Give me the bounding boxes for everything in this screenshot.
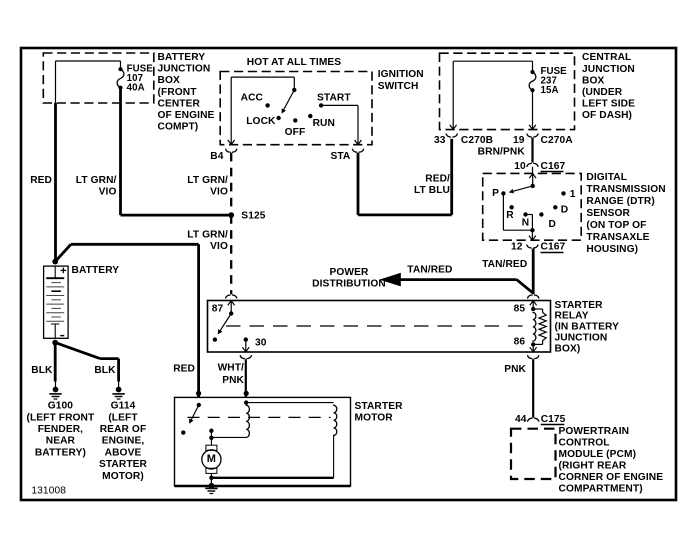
relay coil (inductor) bbox=[533, 312, 536, 341]
svg-text:LT GRN/: LT GRN/ bbox=[76, 175, 117, 186]
svg-text:BATTERY: BATTERY bbox=[72, 265, 120, 276]
svg-text:(LEFT: (LEFT bbox=[108, 412, 138, 423]
connector at relay 30 bbox=[240, 356, 251, 359]
svg-text:LT GRN/: LT GRN/ bbox=[187, 229, 228, 240]
svg-text:TAN/RED: TAN/RED bbox=[482, 259, 527, 270]
svg-text:TRANSAXLE: TRANSAXLE bbox=[586, 232, 649, 243]
DTR sensor name label bbox=[586, 172, 665, 255]
svg-text:LOCK: LOCK bbox=[246, 116, 276, 127]
svg-text:VIO: VIO bbox=[99, 186, 117, 197]
svg-text:ENGINE,: ENGINE, bbox=[102, 436, 145, 447]
label RED bbox=[30, 175, 52, 186]
starter solenoid blade bbox=[189, 405, 199, 424]
battery junction box (dashed enclosure) bbox=[43, 53, 154, 103]
wire RED/LT BLU - STA to connector 33 bbox=[358, 139, 452, 215]
svg-text:RED: RED bbox=[173, 364, 195, 375]
svg-text:(FRONT: (FRONT bbox=[158, 87, 198, 98]
connector STA symbol bbox=[352, 149, 363, 152]
connector 19 C270A symbol bbox=[527, 134, 538, 137]
contact dot RUN bbox=[308, 114, 312, 118]
svg-text:MODULE (PCM): MODULE (PCM) bbox=[559, 449, 637, 460]
svg-text:C167: C167 bbox=[541, 161, 566, 172]
svg-text:RANGE (DTR): RANGE (DTR) bbox=[586, 196, 654, 207]
PCM name label bbox=[559, 426, 664, 495]
label RED (starter feed) bbox=[173, 364, 195, 375]
contact dot 1 bbox=[561, 191, 565, 195]
pin label 33 bbox=[434, 135, 446, 146]
connector 12 C167 symbol bbox=[527, 245, 538, 248]
wire RED - battery positive to starter motor bbox=[55, 244, 198, 397]
svg-text:RED: RED bbox=[30, 175, 52, 186]
svg-text:10: 10 bbox=[514, 161, 526, 172]
relay fixed contact bbox=[213, 337, 217, 341]
svg-text:TAN/RED: TAN/RED bbox=[407, 264, 452, 275]
svg-text:(LEFT FRONT: (LEFT FRONT bbox=[26, 412, 95, 423]
wire LT GRN/VIO - fuse 107 to splice S125 bbox=[121, 89, 232, 216]
solenoid feed junction (RED) bbox=[196, 391, 201, 396]
pin label 30 bbox=[255, 337, 267, 348]
svg-text:M: M bbox=[207, 453, 216, 465]
pin label 86 bbox=[514, 337, 526, 348]
solenoid coil feed junction (WHT/PNK) bbox=[244, 391, 249, 396]
svg-text:C175: C175 bbox=[541, 414, 566, 425]
pin label 10 bbox=[514, 161, 526, 172]
terminal 33 exit arrow bbox=[450, 125, 457, 130]
battery symbol bbox=[44, 266, 69, 338]
wire BLK - battery negative to G100 bbox=[54, 343, 57, 387]
connector 10 C167 symbol bbox=[527, 163, 538, 166]
relay internal dashed divider bbox=[226, 325, 525, 327]
svg-text:STARTER: STARTER bbox=[99, 459, 148, 470]
mechanical linkage (dashed) bbox=[188, 416, 331, 418]
svg-text:SWITCH: SWITCH bbox=[378, 81, 419, 92]
svg-text:R: R bbox=[506, 210, 514, 221]
label D (upper) bbox=[561, 204, 568, 215]
label LT GRN/VIO (B4 branch) bbox=[187, 175, 228, 197]
starter solenoid contact pivot bbox=[197, 403, 201, 407]
svg-text:44: 44 bbox=[515, 414, 527, 425]
svg-text:40A: 40A bbox=[127, 83, 145, 94]
svg-text:STARTER: STARTER bbox=[355, 401, 404, 412]
svg-text:DIGITAL: DIGITAL bbox=[586, 172, 627, 183]
svg-text:FENDER,: FENDER, bbox=[38, 424, 83, 435]
svg-text:B4: B4 bbox=[210, 151, 223, 162]
ignition switch pivot contact bbox=[292, 88, 296, 92]
label START bbox=[317, 93, 351, 104]
svg-text:BLK: BLK bbox=[94, 365, 116, 376]
label D (lower) bbox=[549, 219, 556, 230]
wire - solenoid node to pull-in coil bbox=[246, 402, 333, 404]
svg-text:BOX: BOX bbox=[582, 75, 604, 86]
starter motor M bbox=[202, 445, 221, 473]
wire - motor to ground rail bbox=[210, 473, 212, 485]
svg-text:START: START bbox=[317, 93, 351, 104]
svg-text:VIO: VIO bbox=[210, 186, 228, 197]
contact dot START bbox=[319, 103, 323, 107]
contact dot LOCK bbox=[276, 116, 280, 120]
svg-text:TRANSMISSION: TRANSMISSION bbox=[586, 184, 665, 195]
label STA bbox=[330, 151, 350, 162]
svg-text:COMPARTMENT): COMPARTMENT) bbox=[559, 483, 643, 494]
wire - fuse 237 to terminal 19 bbox=[532, 90, 534, 129]
starter solenoid fixed contact bbox=[181, 430, 185, 434]
wire BLK - battery negative to G114 bbox=[55, 343, 118, 387]
ground G100 bbox=[49, 387, 61, 399]
motor node lower bbox=[209, 436, 213, 440]
connector name C167 (top) bbox=[541, 161, 566, 172]
svg-text:P: P bbox=[492, 188, 499, 199]
connector at relay 85 bbox=[528, 295, 539, 298]
svg-text:N: N bbox=[522, 218, 529, 229]
svg-text:JUNCTION: JUNCTION bbox=[158, 64, 211, 75]
terminal B4 exit arrow bbox=[228, 140, 235, 145]
svg-text:NEAR: NEAR bbox=[46, 436, 76, 447]
svg-text:BATTERY: BATTERY bbox=[158, 52, 206, 63]
svg-text:C270B: C270B bbox=[461, 135, 493, 146]
figure number 131008 bbox=[31, 485, 66, 496]
label HOT AT ALL TIMES bbox=[247, 57, 342, 68]
connector name C270A bbox=[541, 135, 574, 146]
svg-text:19: 19 bbox=[513, 135, 525, 146]
ignition switch box (dashed enclosure) bbox=[220, 72, 372, 145]
contact dot P bbox=[501, 191, 505, 195]
svg-text:1: 1 bbox=[570, 189, 576, 200]
wire BRN/PNK - connector 19 to C167 pin 10 bbox=[531, 138, 533, 163]
svg-text:HOUSING): HOUSING) bbox=[586, 244, 638, 255]
svg-text:131008: 131008 bbox=[31, 485, 66, 496]
svg-text:STARTER: STARTER bbox=[555, 300, 604, 311]
wire LT GRN/VIO (dashed) - S125 to starter relay 87 bbox=[230, 215, 232, 294]
connector 44 C175 symbol bbox=[528, 418, 539, 421]
svg-text:C270A: C270A bbox=[541, 135, 574, 146]
label LT GRN/VIO (relay branch) bbox=[187, 229, 228, 251]
svg-text:OFF: OFF bbox=[285, 127, 306, 138]
pin label 87 bbox=[212, 303, 224, 314]
pin label 44 bbox=[515, 414, 527, 425]
relay 87 contact bbox=[229, 311, 233, 315]
svg-text:CONTROL: CONTROL bbox=[559, 437, 610, 448]
connector name C175 bbox=[541, 414, 566, 425]
connector name C270B bbox=[461, 135, 493, 146]
svg-text:BOX: BOX bbox=[158, 75, 180, 86]
wire - nodes to motor bbox=[210, 429, 212, 446]
svg-text:IGNITION: IGNITION bbox=[378, 69, 424, 80]
contact dot ACC bbox=[265, 103, 269, 107]
wire TAN/RED - C167 pin 12 to starter relay 85 bbox=[532, 249, 535, 295]
label WHT/PNK bbox=[218, 363, 245, 386]
svg-text:SENSOR: SENSOR bbox=[586, 208, 630, 219]
contact dot N bbox=[523, 212, 527, 216]
ground G100 label bbox=[26, 401, 95, 459]
connector at relay 86 bbox=[528, 356, 539, 359]
battery positive junction node bbox=[52, 259, 58, 265]
connector B4 symbol bbox=[226, 149, 237, 152]
terminal STA exit arrow bbox=[355, 140, 362, 145]
relay movable contact blade bbox=[218, 314, 232, 335]
solenoid node bbox=[244, 400, 248, 404]
svg-text:(IN BATTERY: (IN BATTERY bbox=[555, 322, 620, 333]
starter motor ground bbox=[205, 483, 217, 494]
svg-text:CORNER OF ENGINE: CORNER OF ENGINE bbox=[559, 472, 664, 483]
digital transmission range sensor box (dashed enclosure) bbox=[483, 173, 582, 240]
svg-text:BLK: BLK bbox=[31, 365, 53, 376]
wire - P contact to pin 12 rail bbox=[503, 193, 532, 230]
connector 33 C270B symbol bbox=[446, 134, 457, 137]
svg-text:D: D bbox=[561, 204, 568, 215]
battery negative junction node bbox=[52, 340, 58, 346]
svg-text:15A: 15A bbox=[541, 85, 559, 96]
starter motor box bbox=[175, 397, 351, 486]
wire - C167 pin 10 to DTR sensor bbox=[532, 167, 534, 174]
label B4 bbox=[210, 151, 223, 162]
svg-text:PNK: PNK bbox=[504, 364, 526, 375]
svg-text:WHT/: WHT/ bbox=[218, 363, 244, 374]
svg-text:86: 86 bbox=[514, 337, 526, 348]
pin label 12 bbox=[511, 242, 523, 253]
wire - START contact to STA terminal bbox=[321, 105, 358, 144]
power distribution feed arrow bbox=[379, 273, 533, 293]
DTR pivot contact bbox=[531, 184, 535, 188]
relay 30 contact bbox=[244, 337, 248, 341]
starter motor name label bbox=[355, 401, 404, 423]
starter relay box bbox=[208, 301, 551, 353]
battery junction box label bbox=[158, 52, 215, 133]
label OFF bbox=[285, 127, 306, 138]
svg-text:COMPT): COMPT) bbox=[158, 122, 199, 133]
svg-text:RED/: RED/ bbox=[425, 174, 450, 185]
label BLK (G100) bbox=[31, 365, 53, 376]
svg-text:LT BLU: LT BLU bbox=[414, 185, 450, 196]
label RED/LT BLU bbox=[414, 174, 450, 196]
svg-text:LT GRN/: LT GRN/ bbox=[187, 175, 228, 186]
svg-text:VIO: VIO bbox=[210, 241, 228, 252]
DTR entry arrow (pin 10) bbox=[529, 174, 536, 186]
svg-text:(UNDER: (UNDER bbox=[582, 87, 623, 98]
label PNK bbox=[504, 364, 526, 375]
ignition switch movable blade bbox=[282, 90, 295, 114]
terminal 19 exit arrow bbox=[529, 125, 536, 130]
contact dot D (upper) bbox=[553, 205, 557, 209]
svg-text:G114: G114 bbox=[111, 401, 136, 412]
svg-text:D: D bbox=[549, 219, 556, 230]
ground G114 label bbox=[99, 401, 148, 482]
svg-text:33: 33 bbox=[434, 135, 446, 146]
relay 85 terminal bbox=[531, 307, 535, 311]
fuse 237 value label bbox=[541, 66, 568, 96]
label BLK (G114) bbox=[94, 365, 116, 376]
svg-text:ACC: ACC bbox=[241, 93, 264, 104]
ignition switch name label bbox=[378, 69, 424, 92]
svg-text:12: 12 bbox=[511, 242, 523, 253]
svg-text:JUNCTION: JUNCTION bbox=[555, 333, 608, 344]
label POWER DISTRIBUTION bbox=[312, 267, 386, 290]
label TAN/RED (arrow) bbox=[407, 264, 452, 275]
label RUN bbox=[313, 118, 335, 129]
svg-text:BOX): BOX) bbox=[555, 343, 581, 354]
svg-text:30: 30 bbox=[255, 337, 267, 348]
wire - ignition switch B4 riser bbox=[231, 77, 294, 144]
starter relay name label bbox=[555, 300, 620, 355]
svg-text:MOTOR: MOTOR bbox=[355, 412, 394, 423]
pin label 85 bbox=[514, 303, 526, 314]
label S125 bbox=[241, 211, 265, 222]
svg-text:(RIGHT REAR: (RIGHT REAR bbox=[559, 460, 627, 471]
wire - N contact to pin 12 rail bbox=[526, 215, 533, 231]
wire - CJB internal bus bbox=[453, 61, 532, 129]
svg-text:S125: S125 bbox=[241, 211, 265, 222]
svg-text:ABOVE: ABOVE bbox=[105, 447, 142, 458]
label BATTERY bbox=[72, 265, 120, 276]
splice S125 bbox=[228, 212, 234, 218]
svg-text:C167: C167 bbox=[541, 242, 566, 253]
label 1 bbox=[570, 189, 576, 200]
fuse 237 (15A) bbox=[529, 70, 536, 92]
label BRN/PNK bbox=[478, 147, 526, 158]
fuse 107 value label bbox=[127, 64, 154, 94]
central junction box label bbox=[582, 52, 635, 121]
wire LT GRN/VIO (dashed) - B4 to S125 bbox=[230, 153, 232, 215]
svg-text:BATTERY): BATTERY) bbox=[35, 447, 86, 458]
svg-text:CENTER: CENTER bbox=[158, 98, 201, 109]
connector name C167 (bottom) bbox=[541, 242, 566, 253]
pin label 19 bbox=[513, 135, 525, 146]
relay 86 terminal bbox=[531, 342, 535, 346]
relay 85 entry arrow bbox=[530, 301, 537, 309]
motor node upper bbox=[209, 429, 213, 433]
svg-text:85: 85 bbox=[514, 303, 526, 314]
svg-text:BRN/PNK: BRN/PNK bbox=[478, 147, 526, 158]
relay 30 exit arrow bbox=[242, 340, 249, 352]
motor ground rail node bbox=[209, 476, 213, 480]
svg-text:(ON TOP OF: (ON TOP OF bbox=[586, 220, 646, 231]
fuse 107 (40A) bbox=[117, 67, 124, 90]
relay coil resistor bbox=[533, 309, 546, 344]
DTR pin 12 junction bbox=[530, 228, 534, 232]
wire PNK - relay 86 to PCM bbox=[532, 359, 534, 417]
central junction box (dashed enclosure) bbox=[440, 53, 575, 129]
svg-text:POWERTRAIN: POWERTRAIN bbox=[559, 426, 630, 437]
wire - hold-in coil to motor bbox=[211, 436, 246, 438]
svg-text:OF DASH): OF DASH) bbox=[582, 110, 632, 121]
ground G114 bbox=[112, 387, 124, 399]
solenoid hold-in coil bbox=[246, 405, 249, 437]
DTR exit arrow (pin 12) bbox=[529, 230, 536, 240]
label N bbox=[522, 218, 529, 229]
svg-text:87: 87 bbox=[212, 303, 224, 314]
contact dot D (lower) bbox=[539, 212, 543, 216]
wire WHT/PNK - relay 30 to starter solenoid bbox=[245, 359, 247, 397]
svg-text:G100: G100 bbox=[48, 401, 74, 412]
label LT GRN/VIO (fuse branch) bbox=[76, 175, 117, 197]
wire - BJB internal bus (battery feed to fuse 107) bbox=[56, 61, 121, 103]
wire - pull-in coil return to ground rail bbox=[211, 435, 333, 477]
contact dot OFF bbox=[293, 118, 297, 122]
powertrain control module box (dashed enclosure) bbox=[511, 429, 556, 479]
svg-text:DISTRIBUTION: DISTRIBUTION bbox=[312, 279, 386, 290]
svg-text:POWER: POWER bbox=[330, 267, 370, 278]
label P bbox=[492, 188, 499, 199]
label ACC bbox=[241, 93, 264, 104]
svg-text:HOT AT ALL TIMES: HOT AT ALL TIMES bbox=[247, 57, 342, 68]
contact dot R bbox=[509, 205, 513, 209]
DTR selector blade bbox=[509, 186, 533, 194]
svg-text:LEFT SIDE: LEFT SIDE bbox=[582, 99, 635, 110]
svg-text:REAR OF: REAR OF bbox=[100, 424, 147, 435]
svg-text:RELAY: RELAY bbox=[555, 311, 589, 322]
label LOCK bbox=[246, 116, 276, 127]
svg-text:MOTOR): MOTOR) bbox=[102, 471, 144, 482]
relay 87 entry arrow bbox=[228, 301, 235, 314]
label R bbox=[506, 210, 514, 221]
svg-text:JUNCTION: JUNCTION bbox=[582, 64, 635, 75]
svg-text:PNK: PNK bbox=[222, 375, 244, 386]
svg-text:CENTRAL: CENTRAL bbox=[582, 52, 631, 63]
relay 86 exit arrow bbox=[530, 344, 537, 351]
connector at relay 87 bbox=[226, 295, 237, 298]
svg-text:OF ENGINE: OF ENGINE bbox=[158, 110, 215, 121]
label TAN/RED (right) bbox=[482, 259, 527, 270]
svg-text:STA: STA bbox=[330, 151, 350, 162]
svg-text:RUN: RUN bbox=[313, 118, 335, 129]
wire RED - battery positive to fuse box bbox=[54, 103, 57, 261]
solenoid pull-in coil bbox=[334, 405, 337, 435]
